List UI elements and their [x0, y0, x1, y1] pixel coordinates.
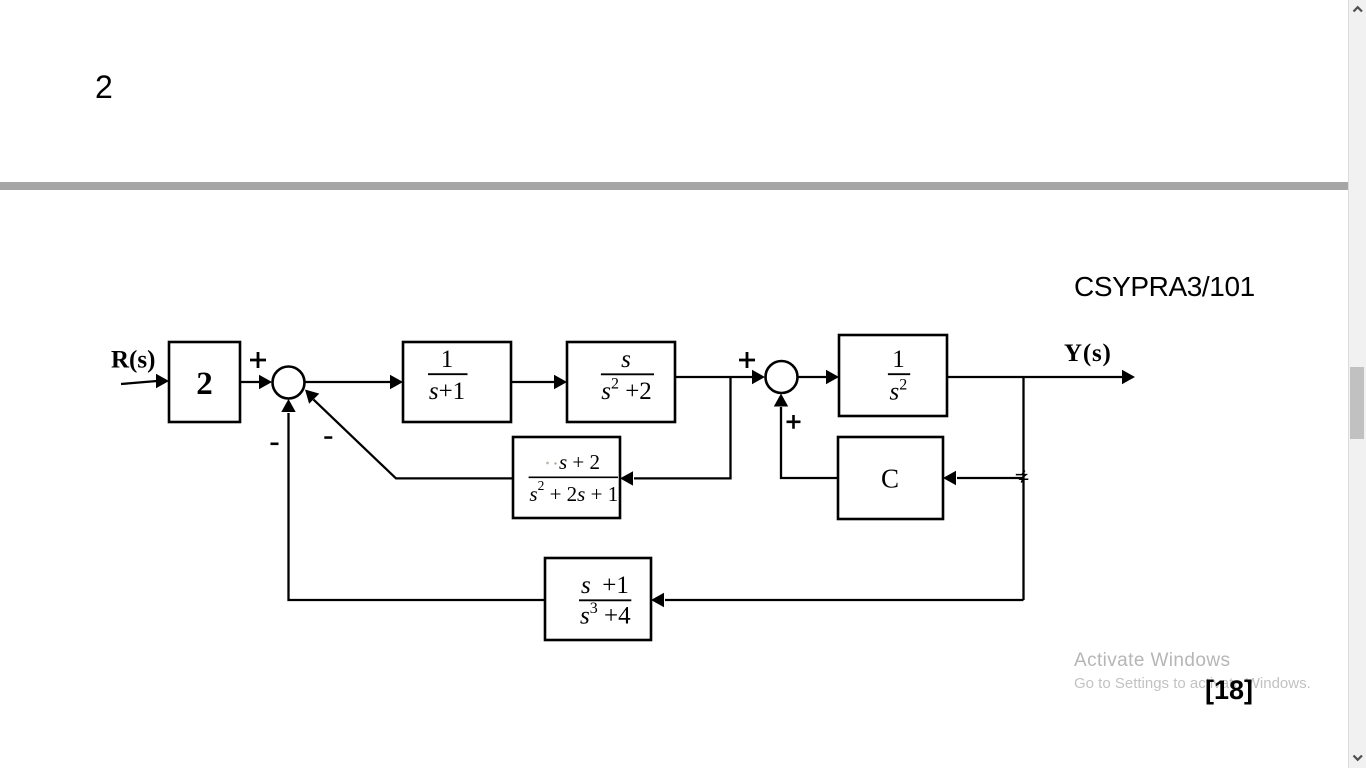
- junction tick mark: [1016, 471, 1029, 483]
- watermark Activate Windows: [1074, 650, 1230, 672]
- scrollbar up arrow: [1352, 4, 1364, 14]
- wire R(s) input line: [121, 381, 157, 384]
- svg-text:R(s): R(s): [111, 347, 155, 374]
- arrowhead into G1: [390, 375, 403, 389]
- wire sum2 to G3: [798, 376, 827, 378]
- block C: [838, 437, 943, 519]
- G1 fraction 1/(s+1): [428, 346, 468, 405]
- page number 2: [95, 69, 113, 106]
- scrollbar thumb: [1350, 367, 1364, 439]
- wire C output to sum2: [781, 407, 838, 478]
- arrowhead bottom into sum1: [281, 399, 295, 412]
- svg-text:s + 2: s + 2: [559, 450, 600, 474]
- minus sign left of diagonal feedback: [324, 436, 332, 439]
- block H2 (s+1)/(s^3+4): [545, 558, 651, 640]
- block H1 (s+2)/(s^2+2s+1): [513, 437, 620, 518]
- block G1 1/(s+1): [403, 342, 511, 422]
- scan speck near H1 numerator: [546, 462, 557, 465]
- plus sign sum2 input: [739, 352, 755, 368]
- scrollbar: [1348, 0, 1349, 768]
- scrollbar down arrow: [1352, 753, 1364, 763]
- wire junction to C block: [957, 477, 1024, 479]
- arrowhead into H1: [620, 471, 633, 485]
- plus sign sum1 input: [250, 352, 266, 368]
- svg-text:2: 2: [196, 366, 213, 402]
- arrowhead Y(s) output: [1122, 370, 1135, 384]
- wire G3 to Y(s) output: [947, 376, 1123, 378]
- wire tap down to H1: [634, 377, 731, 478]
- wire H1 output to sum1 diagonal: [314, 400, 514, 479]
- svg-text:s2: s2: [890, 376, 908, 405]
- arrowhead into sum2 left: [752, 370, 765, 384]
- label R(s): [111, 347, 155, 374]
- wire bottom feedback right segment: [665, 599, 1024, 601]
- arrowhead into G2: [554, 375, 567, 389]
- label Y(s): [1064, 340, 1112, 367]
- arrowhead into H2: [651, 593, 664, 607]
- label C in block: [881, 464, 899, 494]
- block G3 1/s^2: [839, 335, 947, 416]
- arrowhead diagonal into sum1: [305, 390, 319, 404]
- summing junction sum2: [766, 361, 798, 393]
- svg-text:s+1: s+1: [581, 572, 629, 599]
- svg-text:s: s: [621, 346, 631, 373]
- svg-text:1: 1: [441, 346, 454, 373]
- plus sign sum2 bottom: [787, 415, 801, 429]
- svg-text:C: C: [881, 464, 899, 494]
- H2 fraction (s+1)/(s^3+4): [579, 572, 631, 630]
- minus sign left of vertical feedback: [271, 443, 279, 446]
- wire H2 output to sum1: [289, 413, 546, 600]
- marks [18]: [1205, 675, 1253, 706]
- wire block2 to sum1: [240, 381, 260, 383]
- G3 fraction 1/s^2: [888, 346, 910, 405]
- svg-text:s2 +2: s2 +2: [601, 376, 652, 406]
- block gain 2: [169, 342, 240, 422]
- arrowhead into block2: [156, 374, 169, 388]
- H1 fraction (s+2)/(s^2+2s+1): [529, 450, 619, 506]
- wire G1 to G2: [511, 381, 555, 383]
- wire sum1 to G1: [305, 381, 391, 383]
- wire G2 to sum2: [675, 376, 753, 378]
- svg-text:1: 1: [892, 346, 905, 373]
- block G2 s/(s^2+2): [567, 342, 675, 422]
- G2 fraction s/(s^2+2): [601, 346, 654, 405]
- svg-text:s3 +4: s3 +4: [580, 600, 631, 630]
- arrowhead into G3: [826, 370, 839, 384]
- summing junction sum1: [273, 367, 305, 399]
- svg-text:s2 + 2s + 1: s2 + 2s + 1: [529, 478, 618, 506]
- arrowhead into sum1 left: [259, 375, 272, 389]
- gray divider bar: [0, 182, 1349, 190]
- svg-text:Y(s): Y(s): [1064, 340, 1112, 367]
- arrowhead C path into sum2: [774, 394, 788, 407]
- course code CSYPRA3/101: [1074, 271, 1255, 303]
- arrowhead into C: [943, 471, 956, 485]
- label 2 in gain block: [196, 366, 213, 402]
- svg-text:s+1: s+1: [429, 378, 465, 405]
- wire Y tap down: [1022, 377, 1024, 600]
